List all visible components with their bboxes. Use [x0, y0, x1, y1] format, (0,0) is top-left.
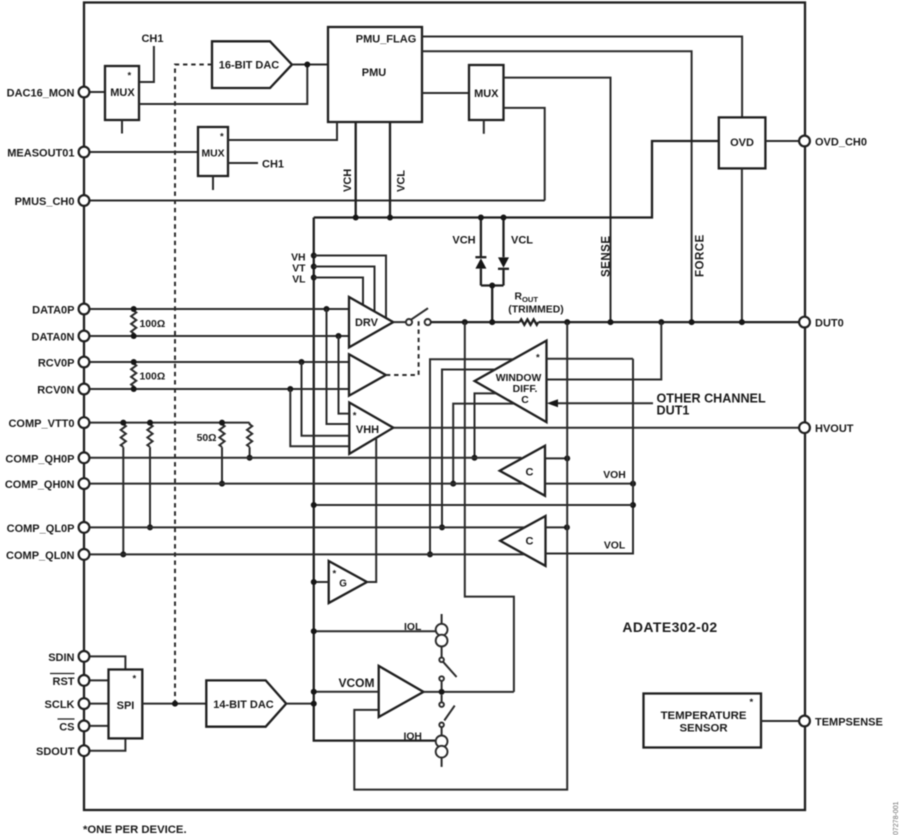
svg-text:ADATE302-02: ADATE302-02	[622, 619, 717, 635]
svg-text:C: C	[526, 536, 534, 548]
pin DAC16_MON	[79, 87, 90, 98]
pin MEASOUT01	[79, 147, 90, 158]
amplifier G	[329, 561, 367, 603]
svg-text:OVD_CH0: OVD_CH0	[815, 137, 867, 149]
svg-text:RCV0N: RCV0N	[37, 385, 74, 397]
wire clamp diodes to DUT0 rail	[481, 286, 504, 323]
svg-text:CH1: CH1	[262, 159, 284, 171]
svg-text:VHH: VHH	[356, 424, 379, 436]
wire MUX U5 select stub	[212, 176, 214, 190]
svg-text:MUX: MUX	[474, 88, 499, 100]
outer border frame	[84, 3, 805, 811]
wire COMP_QH0N line	[89, 483, 523, 485]
pin RST (active low)	[79, 675, 90, 686]
svg-text:DUT1: DUT1	[657, 404, 690, 418]
node junction DAC/MUX/PMU	[304, 62, 310, 68]
wire comparator bus to main bus	[314, 504, 633, 506]
svg-text:VT: VT	[292, 263, 306, 274]
pin COMP_QH0N	[79, 478, 90, 489]
node rail window tap	[658, 319, 664, 325]
svg-text:C: C	[526, 467, 534, 479]
pmu U1	[328, 27, 422, 122]
svg-text:*: *	[220, 132, 224, 143]
svg-text:CS: CS	[59, 722, 74, 734]
node VT	[311, 264, 317, 270]
wire VCOM input from bus	[314, 691, 379, 693]
wire DATA0N to VHH	[339, 336, 350, 414]
pin COMP_QL0P	[79, 522, 90, 533]
node VCH on rail	[353, 215, 359, 221]
current source IOL	[441, 614, 443, 658]
wire 16-bit DAC output to PMU	[292, 64, 328, 66]
wire WINDOW DIFF input from VOH bus	[547, 358, 634, 360]
svg-text:COMP_QL0P: COMP_QL0P	[7, 523, 75, 535]
pin SCLK	[79, 698, 90, 709]
node CH1 (upper)	[139, 46, 154, 82]
svg-text:SENSOR: SENSOR	[679, 723, 727, 735]
switch S2 IOL	[439, 658, 444, 663]
wire G output to VHH	[367, 438, 376, 582]
svg-text:HVOUT: HVOUT	[815, 423, 854, 435]
svg-text:*: *	[128, 71, 132, 82]
node VCL on rail	[387, 215, 393, 221]
resistor R6 50ohm VTT to COMP_QH0P	[247, 423, 252, 458]
wire PMU measure output to MUX U4	[422, 92, 469, 94]
wire VOL output up to comparator bus	[546, 359, 634, 554]
pin HVOUT	[799, 422, 810, 433]
pin OVD_CH0	[799, 136, 810, 147]
wire RST to SPI	[89, 679, 109, 681]
svg-text:VL: VL	[292, 274, 306, 285]
wire RCV output (dashed) to output switch	[386, 318, 419, 376]
wire VOH comparator sense input	[545, 457, 567, 459]
pin COMP_QH0P	[79, 452, 90, 463]
node serial junction	[172, 701, 178, 707]
svg-text:VH: VH	[291, 252, 305, 263]
wire PMUS_CH0	[89, 200, 545, 202]
wire DUT0 rail with ROUT	[431, 321, 800, 323]
pin DATA0P	[79, 304, 90, 315]
svg-text:DIFF.: DIFF.	[513, 384, 538, 395]
current source IOH	[436, 736, 448, 748]
wire COMP_QH0N to WINDOW DIFF	[453, 404, 514, 484]
svg-text:WINDOW: WINDOW	[496, 373, 542, 384]
node DATA0N tap	[336, 333, 342, 339]
node rail clamp	[489, 319, 495, 325]
wire OVD to DUT0 rail	[741, 168, 743, 322]
wire clamp rail to OVD	[314, 141, 719, 218]
svg-text:FORCE: FORCE	[695, 234, 707, 277]
svg-text:IOH: IOH	[403, 732, 421, 743]
wire OTHER CHANNEL DUT1 with arrowhead	[557, 402, 654, 404]
svg-text:C: C	[521, 395, 529, 406]
diode D1 VCH clamp (points up)	[480, 218, 482, 286]
wire DATA0P to VHH	[327, 309, 350, 424]
resistor ROUT (trimmed) in rail	[520, 319, 539, 324]
svg-text:ROUT: ROUT	[515, 292, 539, 305]
svg-text:*: *	[750, 697, 754, 708]
svg-text:(TRIMMED): (TRIMMED)	[508, 304, 563, 315]
svg-text:RST: RST	[53, 676, 75, 688]
resistor R1 100ohm	[131, 309, 136, 335]
amplifier VHH	[349, 403, 393, 454]
node DATA0P tap	[324, 306, 330, 312]
svg-text:100Ω: 100Ω	[140, 372, 166, 383]
svg-text:DATA0P: DATA0P	[32, 305, 74, 317]
svg-text:VCL: VCL	[396, 170, 408, 192]
svg-text:MUX: MUX	[201, 149, 224, 160]
diode D2 VCL clamp (points down)	[502, 218, 504, 286]
wire temperature sensor to TEMPSENSE pin	[761, 720, 800, 722]
svg-text:DATA0N: DATA0N	[32, 332, 75, 344]
wire MUX U2 select stub	[121, 120, 123, 134]
svg-text:50Ω: 50Ω	[197, 433, 217, 444]
svg-text:SENSE: SENSE	[601, 236, 613, 278]
wire HVOUT from VHH output	[393, 427, 799, 429]
svg-text:PMU: PMU	[362, 67, 387, 79]
svg-text:100Ω: 100Ω	[140, 319, 166, 330]
pin SDOUT	[79, 745, 90, 756]
wire VH to DRV	[314, 256, 386, 319]
svg-text:DAC16_MON: DAC16_MON	[7, 88, 75, 100]
node rail comparator sense	[564, 319, 570, 325]
resistor R3 50ohm VTT to COMP_QL0N	[121, 423, 126, 555]
node rail to VCOM loop	[462, 319, 468, 325]
wire VT to DRV	[314, 267, 375, 312]
svg-text:*: *	[333, 569, 337, 580]
svg-text:PMU_FLAG: PMU_FLAG	[356, 34, 417, 46]
wire DATA0P	[89, 308, 349, 310]
svg-text:IOL: IOL	[404, 622, 422, 633]
wire serial bus (dashed) 16-bit DAC to SPI	[175, 65, 212, 704]
pin DUT0	[799, 317, 810, 328]
buffer RCV (unlabeled)	[349, 354, 386, 395]
wire SDOUT to SPI	[89, 738, 125, 750]
svg-text:16-BIT DAC: 16-BIT DAC	[219, 60, 280, 72]
pin RCV0P	[79, 357, 90, 368]
mux U5	[198, 127, 228, 176]
wire DAC16_MON to MUX U2	[89, 91, 105, 93]
svg-text:RCV0P: RCV0P	[38, 358, 75, 370]
wire COMP_QH0P to WINDOW DIFF	[475, 393, 497, 457]
wire COMP_QL0N to WINDOW DIFF	[430, 359, 513, 554]
node VL	[311, 275, 317, 281]
comparator WINDOW DIFF	[475, 341, 547, 423]
wire COMP_VTT0	[89, 422, 250, 424]
svg-text:VCL: VCL	[511, 235, 533, 247]
svg-text:*ONE PER DEVICE.: *ONE PER DEVICE.	[83, 824, 187, 835]
svg-text:TEMPSENSE: TEMPSENSE	[815, 717, 883, 729]
wire SDIN to SPI	[89, 656, 125, 669]
wire DUT0 rail to VCOM output loop	[465, 322, 514, 692]
svg-text:SDIN: SDIN	[48, 652, 74, 664]
ovd U6	[719, 117, 766, 168]
svg-text:DRV: DRV	[355, 317, 379, 329]
svg-text:VCH: VCH	[342, 169, 354, 192]
node RCV0P tap	[299, 359, 305, 365]
wire MUX U2 output to PMU input node	[139, 65, 307, 105]
14-bit DAC U8	[206, 680, 286, 726]
mux U4	[469, 65, 504, 120]
svg-text:CH1: CH1	[141, 33, 163, 45]
pin TEMPSENSE	[799, 716, 810, 727]
svg-text:SCLK: SCLK	[45, 699, 75, 711]
wire RCV0N	[89, 388, 349, 390]
node VH	[311, 253, 317, 259]
svg-text:VCOM: VCOM	[339, 676, 375, 690]
wire MUX U4 select stub	[483, 120, 485, 134]
wire OVD to OVD_CH0 pin	[765, 140, 799, 142]
svg-text:*: *	[536, 353, 540, 364]
node RCV0N tap	[287, 386, 293, 392]
wire MUX U4 output SENSE line to DUT0 rail	[504, 78, 611, 323]
wire SCLK to SPI	[89, 703, 109, 705]
resistor R2 100ohm	[131, 362, 136, 388]
svg-text:COMP_QH0P: COMP_QH0P	[5, 453, 74, 465]
svg-text:VOL: VOL	[604, 541, 626, 552]
16-bit DAC U3	[212, 41, 292, 88]
wire MUX U5 output to PMU bottom	[228, 122, 337, 140]
resistor R5 50ohm VTT to COMP_QH0N	[219, 423, 224, 484]
svg-text:PMUS_CH0: PMUS_CH0	[15, 196, 75, 208]
wire DATA0N	[89, 335, 349, 337]
svg-text:G: G	[339, 579, 347, 590]
switch S1 DRV output	[393, 321, 406, 323]
wire SPI output to 14-bit DAC	[142, 703, 206, 705]
wire MEASOUT01 to MUX U5	[89, 151, 198, 153]
svg-text:TEMPERATURE: TEMPERATURE	[661, 710, 747, 722]
pin CS (active low)	[79, 721, 90, 732]
wire main reference bus (VH/VT/VL/VCOM) with IOH turn	[314, 218, 436, 741]
wire 14-bit DAC output to bus	[286, 703, 314, 705]
wire RCV0P	[89, 361, 349, 363]
wire IOL from bus	[314, 630, 436, 632]
pin RCV0N	[79, 384, 90, 395]
svg-text:SDOUT: SDOUT	[36, 746, 75, 758]
svg-text:*: *	[353, 411, 357, 422]
wire VCH from PMU	[355, 122, 357, 218]
wire VOH output	[545, 483, 633, 485]
node rail SENSE	[608, 319, 614, 325]
mux U2	[105, 66, 139, 120]
svg-text:DUT0: DUT0	[815, 318, 844, 330]
pin COMP_VTT0	[79, 417, 90, 428]
wire VCL from PMU	[389, 122, 391, 218]
svg-text:MUX: MUX	[110, 87, 135, 99]
pin SDIN	[79, 651, 90, 662]
wire VCOM amp output	[424, 691, 514, 693]
wire FORCE from PMU to DUT0 rail	[422, 51, 692, 322]
pin DATA0N	[79, 331, 90, 342]
wire RCV0N to VHH	[290, 389, 349, 446]
wire COMP_QL0P to WINDOW DIFF	[442, 370, 495, 528]
wire VOL comparator sense input	[546, 526, 567, 528]
svg-text:VOH: VOH	[603, 470, 626, 481]
buffer VCOM amp	[379, 666, 424, 717]
wire COMP_QL0N line	[89, 553, 525, 555]
switch S3 IOH	[441, 695, 443, 702]
wire COMP_QH0P line	[89, 457, 521, 459]
wire CS to SPI	[89, 725, 109, 727]
wire PMU_FLAG output to OVD	[422, 37, 742, 118]
comparator C (VOH)	[500, 446, 545, 496]
svg-text:COMP_VTT0: COMP_VTT0	[8, 418, 74, 430]
wire DUT0 sense down to VCOM feedback	[354, 322, 567, 789]
wire VL to DRV	[314, 278, 363, 306]
node CH1 (lower)	[228, 162, 258, 164]
wire RCV0P to VHH	[302, 362, 350, 436]
wire COMP_QL0P line	[89, 526, 525, 528]
driver DRV	[349, 297, 393, 347]
comparator C (VOL)	[500, 516, 545, 566]
svg-text:07278-001: 07278-001	[893, 801, 900, 835]
node rail FORCE	[689, 319, 695, 325]
pin COMP_QL0N	[79, 549, 90, 560]
svg-text:SPI: SPI	[117, 700, 135, 712]
svg-text:COMP_QL0N: COMP_QL0N	[6, 550, 75, 562]
spi U7	[109, 670, 143, 739]
svg-text:COMP_QH0N: COMP_QH0N	[5, 479, 75, 491]
wire MUX U4 output to PMUS_CH0 line	[504, 108, 545, 201]
svg-text:*: *	[133, 674, 137, 685]
svg-text:14-BIT DAC: 14-BIT DAC	[213, 699, 274, 711]
node rail OVD	[739, 319, 745, 325]
wire WINDOW DIFF input from DUT0 rail	[547, 322, 662, 379]
temperature sensor U9	[644, 694, 762, 748]
svg-text:VCH: VCH	[452, 235, 475, 247]
wire G input from bus	[314, 581, 329, 583]
svg-text:MEASOUT01: MEASOUT01	[7, 148, 74, 160]
pin PMUS_CH0	[79, 195, 90, 206]
resistor R4 50ohm VTT to COMP_QL0P	[147, 423, 152, 528]
svg-text:OVD: OVD	[730, 137, 754, 149]
